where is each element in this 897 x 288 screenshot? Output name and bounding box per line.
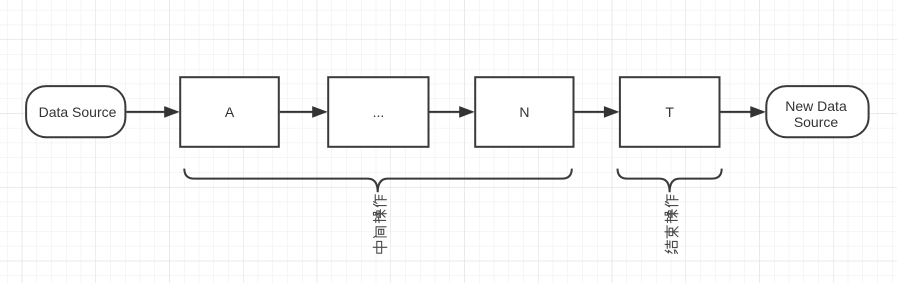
process box ... (328, 77, 428, 147)
wire ... to N (430, 111, 461, 113)
glyph shu (665, 226, 678, 238)
wire A to ... (280, 111, 313, 113)
arrowhead into A (164, 106, 180, 118)
glyph zhong (373, 241, 387, 253)
process box N (475, 77, 573, 147)
glyph zuo (373, 195, 386, 207)
arrowhead into ... (312, 106, 328, 118)
svg-text:Data Source: Data Source (39, 104, 117, 120)
node New Data Source (rounded terminator) (766, 86, 868, 137)
glyph cao (665, 210, 678, 223)
glyph jian (374, 227, 387, 238)
arrowhead into N (459, 106, 475, 118)
label 结束操作 (rotated) (665, 195, 678, 254)
svg-text:...: ... (373, 104, 385, 120)
wire T to New Data Source (721, 111, 752, 113)
arrowhead into New Data Source (750, 106, 766, 118)
wire Data Source to A (126, 111, 165, 113)
svg-text:N: N (519, 104, 529, 120)
arrowhead into T (604, 106, 620, 118)
svg-text:Source: Source (794, 114, 839, 130)
node Data Source (rounded terminator) (26, 86, 125, 137)
label 中间操作 (rotated) (373, 195, 387, 254)
glyph zuo (665, 195, 678, 207)
process box T (620, 77, 720, 147)
brace terminal operations (618, 169, 722, 193)
glyph jie (665, 240, 677, 253)
brace intermediate operations (184, 169, 572, 193)
svg-text:A: A (225, 104, 235, 120)
process box A (180, 77, 279, 147)
wire N to T (575, 111, 606, 113)
svg-text:New Data: New Data (785, 98, 847, 114)
svg-text:T: T (665, 104, 674, 120)
glyph cao (373, 210, 386, 223)
